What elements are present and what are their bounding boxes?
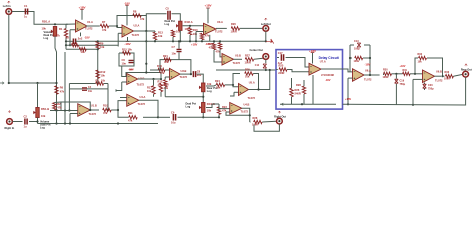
op-amp U6A <box>353 69 365 82</box>
svg-text:U5.B: U5.B <box>235 54 241 58</box>
svg-text:47k: 47k <box>128 119 133 123</box>
capacitor C3 <box>73 39 75 45</box>
loop R13 C6 network <box>119 53 134 66</box>
resistor R9 upper <box>96 41 100 49</box>
svg-text:10n: 10n <box>122 62 127 66</box>
wire R23 bottom <box>218 114 220 117</box>
resistor R27b <box>302 86 305 94</box>
wire U4B + stub <box>226 111 230 113</box>
resistor R15 top of loop <box>123 51 131 54</box>
svg-text:U5.A: U5.A <box>249 80 255 84</box>
capacitor C6 <box>129 60 134 62</box>
bus net B y45 <box>66 44 118 46</box>
svg-text:-18V: -18V <box>325 78 331 82</box>
svg-text:100R: 100R <box>383 76 389 79</box>
resistor R28 <box>254 120 263 123</box>
wire into U4B <box>219 104 230 109</box>
svg-text:+18V: +18V <box>204 4 211 8</box>
feedback U5A <box>233 74 240 85</box>
wire RC top right <box>104 83 108 85</box>
svg-text:10k: 10k <box>101 74 106 78</box>
wire R25b to U7 + <box>287 70 309 72</box>
node x98 bus <box>97 44 99 46</box>
wire U1A V- stub <box>80 33 82 37</box>
svg-text:U3.B: U3.B <box>181 69 187 73</box>
svg-text:TL072: TL072 <box>180 75 188 79</box>
wire R23v to U5B <box>220 49 222 57</box>
svg-text:R28: R28 <box>296 83 301 87</box>
svg-text:47k: 47k <box>158 83 163 87</box>
svg-text:10k: 10k <box>207 82 212 86</box>
op-amp U6B <box>423 70 435 83</box>
svg-text:10k: 10k <box>41 114 46 118</box>
svg-text:C17: C17 <box>278 51 283 55</box>
wire y49 link <box>66 48 98 50</box>
resistor R7 <box>100 24 109 27</box>
wire U2B out <box>138 78 161 80</box>
svg-text:TL072: TL072 <box>138 102 146 106</box>
svg-text:LT1010CN8: LT1010CN8 <box>321 74 335 77</box>
bus U1B - input <box>50 110 78 112</box>
left edge stub <box>0 82 4 84</box>
node y97 <box>202 96 204 98</box>
connector pin J1 <box>8 1 11 3</box>
potentiometer R19/2.A rear <box>202 83 205 92</box>
stub <box>97 40 99 42</box>
wire RC to U1B input <box>68 89 70 111</box>
power -18V U2A <box>126 41 130 43</box>
wire rear pot B bottom <box>202 113 204 118</box>
wire C9 to pot node <box>178 116 204 118</box>
wire rear pot A wiper to R24 <box>206 85 216 86</box>
svg-text:R21: R21 <box>163 54 168 58</box>
wire y117 to C9 <box>158 116 170 118</box>
svg-text:R9: R9 <box>100 42 104 46</box>
op-amp U7 LT1010 <box>309 63 321 75</box>
svg-text:R6: R6 <box>60 86 64 90</box>
potentiometer R5/1.A volume <box>53 27 56 37</box>
wire to R26b <box>291 78 293 88</box>
wire C8 to rear pot <box>197 74 204 83</box>
resistor R20 <box>231 27 240 30</box>
jog <box>383 74 385 75</box>
wire U6A + to bottom bus <box>347 78 349 104</box>
svg-text:2n2: 2n2 <box>78 37 83 41</box>
node pot top junction <box>54 23 56 25</box>
wire column x98 <box>97 49 99 84</box>
stub2 <box>53 109 55 112</box>
resistor R31 <box>403 72 411 75</box>
wire U4A out loop right <box>139 100 158 117</box>
svg-text:U6.B: U6.B <box>436 69 442 73</box>
svg-text:U3.A: U3.A <box>217 20 223 24</box>
resistor R19 <box>158 68 165 71</box>
capacitor C17 <box>281 54 283 61</box>
resistor R23 <box>217 107 220 115</box>
svg-text:10u: 10u <box>171 120 176 124</box>
resistor R15b <box>164 80 167 87</box>
resistor R27 <box>245 58 254 61</box>
wire U2A out <box>134 30 156 32</box>
resistor R13 drop <box>153 32 156 40</box>
wire +18V to U7 <box>312 53 314 64</box>
wire R27 to Center Out <box>254 58 263 59</box>
svg-text:10k: 10k <box>100 45 105 49</box>
potentiometer R5/1.B volume <box>36 108 39 118</box>
bus A end arrow <box>266 39 274 44</box>
wire box bottom bus <box>280 103 336 105</box>
wire to U1A + input <box>66 23 76 25</box>
svg-text:R20: R20 <box>231 22 236 26</box>
connector pin J2 <box>8 111 11 113</box>
feedback loop U2A <box>117 16 146 31</box>
wire rear pot B wiper <box>206 104 212 108</box>
wire column x65 long <box>64 52 66 111</box>
jack J1 Left In <box>6 9 12 15</box>
wire +18V to U1A <box>81 9 83 19</box>
resistor R23v <box>218 43 221 49</box>
svg-text:240R: 240R <box>278 71 284 75</box>
node U2A in <box>116 25 118 27</box>
svg-text:U1.B: U1.B <box>91 103 97 107</box>
svg-text:R15: R15 <box>158 79 163 83</box>
wire pot A wiper to U3A <box>183 25 204 27</box>
svg-text:10n: 10n <box>88 90 93 93</box>
wire pot A bottom to bus <box>179 30 181 41</box>
wire R30 to R31 <box>392 73 403 75</box>
svg-text:Right In: Right In <box>5 126 15 130</box>
wire R20 to Left Out <box>240 27 263 29</box>
wire R15b to y97 bus <box>164 87 166 97</box>
wire RC bottom right <box>87 88 108 90</box>
wire U2B + ref stub <box>116 82 122 91</box>
wire R14 bottom <box>172 37 174 41</box>
wire U5B out <box>234 58 243 60</box>
op-amp U4A <box>127 94 139 106</box>
svg-text:C8: C8 <box>197 69 201 73</box>
resistor R30 <box>384 72 392 75</box>
resistor R3 on bus B <box>72 44 79 47</box>
stub <box>53 102 55 104</box>
svg-text:47k: 47k <box>216 49 221 53</box>
wire RC left link <box>68 84 70 89</box>
wire out down to bus1 <box>145 31 147 41</box>
svg-text:TL072: TL072 <box>215 30 223 34</box>
node R17 top <box>152 78 154 80</box>
wire +18V to U3A <box>207 8 209 23</box>
svg-text:+18V: +18V <box>78 5 85 9</box>
wire to right volume pot <box>37 83 39 108</box>
svg-text:47k: 47k <box>140 17 145 21</box>
svg-text:10k: 10k <box>207 108 212 112</box>
wire C2 to pot node <box>29 121 38 123</box>
svg-text:R5/1.A: R5/1.A <box>42 20 50 24</box>
wire bus link x66 <box>65 45 67 49</box>
wire R16 to bus <box>201 40 203 42</box>
svg-text:-18V: -18V <box>128 68 134 72</box>
svg-text:Log: Log <box>165 22 170 26</box>
wire U3B + input <box>165 76 169 78</box>
svg-text:R12: R12 <box>101 70 106 74</box>
wire R13 top <box>154 31 156 32</box>
node U2A out <box>145 30 147 32</box>
arrow box bus <box>282 103 285 105</box>
resistor R11 <box>129 116 137 119</box>
svg-text:100R: 100R <box>444 78 450 81</box>
svg-text:100R: 100R <box>252 123 258 127</box>
svg-text:R13: R13 <box>158 30 163 34</box>
svg-text:R30: R30 <box>383 69 388 72</box>
connector pin J4 <box>278 111 281 113</box>
wire bus to R23v <box>219 41 221 43</box>
svg-text:100R: 100R <box>231 30 237 34</box>
svg-text:1u: 1u <box>24 125 27 129</box>
svg-text:10k: 10k <box>42 26 47 30</box>
wire y117 to R23col <box>203 116 218 118</box>
bottom bus left <box>38 123 159 125</box>
svg-text:Log: Log <box>207 89 212 93</box>
svg-text:TL072: TL072 <box>364 77 372 81</box>
wire J1 to volume pot bus <box>12 12 68 25</box>
node box bus <box>301 103 303 105</box>
capacitor C12 <box>263 64 267 68</box>
svg-text:1u: 1u <box>24 15 27 19</box>
svg-text:Left In: Left In <box>3 4 11 8</box>
svg-text:47k: 47k <box>60 89 65 93</box>
svg-text:R11: R11 <box>128 111 133 115</box>
node R10 top <box>189 25 191 27</box>
svg-text:C3: C3 <box>66 35 70 39</box>
svg-text:R31: R31 <box>403 69 408 72</box>
wire U6A out <box>364 74 380 76</box>
svg-text:47k: 47k <box>160 71 165 75</box>
node y117 pot <box>202 116 204 118</box>
wire box edge to C17 <box>277 57 279 59</box>
resistor R6 <box>55 86 58 94</box>
svg-text:C7: C7 <box>172 45 176 49</box>
node RC right top <box>97 82 99 84</box>
svg-text:TL072: TL072 <box>85 27 93 31</box>
resistor R29 feedback <box>355 56 363 59</box>
wire C19 to bottom bus <box>395 84 397 105</box>
wire U2B - input <box>122 66 127 77</box>
svg-text:C2: C2 <box>24 114 28 118</box>
potentiometer R19/2.B rear <box>202 103 205 113</box>
resistor R26b <box>290 88 293 97</box>
svg-text:TL072: TL072 <box>435 79 443 83</box>
resistor R21 feedback <box>164 58 171 61</box>
wire box out to U6A <box>343 69 353 72</box>
wire U4B out down <box>242 108 250 122</box>
wire R11 left up <box>118 110 129 117</box>
jack J5 Center Out <box>263 54 269 60</box>
svg-text:-18V: -18V <box>124 2 130 6</box>
stub C20 top <box>424 83 426 85</box>
power +18V U1A <box>80 8 84 10</box>
svg-text:TL072: TL072 <box>241 110 249 114</box>
wire Center Out down <box>265 59 267 63</box>
wire R33 to Rear Out <box>453 74 462 76</box>
capacitor C2 <box>25 119 27 125</box>
svg-text:U6.A: U6.A <box>365 68 371 72</box>
power -18V U2A top <box>125 4 129 6</box>
capacitor C13 <box>357 43 361 47</box>
wire U2A + input stub <box>118 32 122 34</box>
wire wiper link <box>212 103 219 105</box>
capacitor C8 <box>193 71 195 77</box>
wire U7 down to box bottom bus <box>312 75 314 104</box>
svg-text:U4.A: U4.A <box>140 95 146 99</box>
wire U4A - in stub <box>120 97 127 99</box>
wire to C19 <box>395 74 397 79</box>
wire to U1A - input <box>70 29 76 31</box>
wire R24 to U5A <box>225 85 239 87</box>
wire RC bottom left <box>69 88 82 90</box>
connector pin J6 <box>465 64 468 66</box>
capacitor C20 <box>423 84 427 88</box>
svg-text:R28: R28 <box>253 116 258 120</box>
svg-text:TL072: TL072 <box>248 96 256 100</box>
svg-text:C9: C9 <box>171 111 175 115</box>
wire U5A + input stub <box>234 91 239 93</box>
op-amp U5A <box>239 84 249 96</box>
wire to R17 <box>153 79 155 86</box>
svg-text:10n: 10n <box>172 51 177 55</box>
resistor R18 <box>159 83 162 92</box>
wire feedback to out <box>253 74 258 90</box>
resistor R10 <box>188 27 191 35</box>
svg-text:100k: 100k <box>354 60 360 63</box>
svg-text:10k: 10k <box>216 86 221 90</box>
svg-text:10k: 10k <box>193 32 198 36</box>
wire U1B out <box>90 109 99 111</box>
svg-text:TL072: TL072 <box>137 82 145 86</box>
svg-text:R15 10k: R15 10k <box>122 47 132 51</box>
svg-text:U2.A: U2.A <box>134 23 140 27</box>
bus y70 <box>216 69 276 71</box>
wire + input down <box>164 77 166 80</box>
feedback U1B <box>61 102 90 111</box>
svg-text:U7.A: U7.A <box>320 59 326 63</box>
svg-text:-18V: -18V <box>365 62 371 66</box>
feedback U6B <box>415 58 418 74</box>
svg-text:-18V: -18V <box>84 36 90 40</box>
svg-text:R33: R33 <box>445 71 450 74</box>
svg-text:47k: 47k <box>102 28 107 32</box>
stub <box>215 84 217 86</box>
wire R19 to U3B <box>165 69 170 71</box>
svg-text:U1.A: U1.A <box>87 20 93 24</box>
bus net A y41 left seg <box>66 40 73 42</box>
wire R23 top <box>218 104 220 107</box>
wire RC to output node <box>107 89 109 110</box>
svg-text:750p: 750p <box>400 83 406 86</box>
svg-text:R17: R17 <box>147 85 152 89</box>
svg-text:Log: Log <box>40 125 45 129</box>
svg-text:R4/2.A: R4/2.A <box>185 20 193 24</box>
wire R13 bottom <box>154 40 156 41</box>
svg-text:+18V: +18V <box>345 97 351 101</box>
svg-text:10k: 10k <box>245 74 250 78</box>
wire U2B + input <box>122 81 127 83</box>
wire Left Out to bus A <box>265 31 267 41</box>
wire R10b to U4A <box>111 101 127 110</box>
svg-text:47k: 47k <box>164 60 169 64</box>
wire RC top <box>69 83 95 85</box>
resistor R25b <box>279 68 287 71</box>
svg-text:R25: R25 <box>279 64 284 68</box>
node R18 top <box>160 78 162 80</box>
resistor R8 feedback U1B <box>96 82 104 85</box>
wire U3A V- stub <box>209 35 211 42</box>
feedback U3B <box>150 60 191 75</box>
wire R31 to U6B <box>410 73 423 75</box>
wire bus to R22v <box>213 41 215 43</box>
resistor R8b lower <box>96 70 100 79</box>
bus y97 <box>165 96 203 98</box>
node filter <box>395 73 397 75</box>
svg-text:R8: R8 <box>133 9 137 13</box>
wire R27b down <box>303 94 305 104</box>
stub C20 bottom <box>424 88 426 90</box>
capacitor C5 <box>168 11 170 20</box>
capacitor C4 <box>82 88 87 90</box>
svg-text:750p: 750p <box>428 87 434 90</box>
svg-text:C6: C6 <box>122 58 126 62</box>
resistor R22v <box>212 43 215 50</box>
wire + input to bus <box>195 32 197 42</box>
wire bus A to C7 <box>178 41 180 49</box>
feedback U4B <box>226 112 250 115</box>
svg-text:U2.B: U2.B <box>139 76 145 80</box>
resistor R25 feedback <box>245 72 254 75</box>
ground loop J4 <box>254 124 279 131</box>
resistor R1 <box>64 29 67 38</box>
svg-text:R27: R27 <box>245 53 250 57</box>
svg-text:U4.B: U4.B <box>244 102 250 106</box>
wire U6B out <box>435 75 442 77</box>
svg-text:-18V: -18V <box>124 42 130 46</box>
wire U3A out <box>216 27 227 29</box>
potentiometer R4/2.A <box>179 21 182 30</box>
capacitor C9 <box>173 114 175 121</box>
svg-text:C12: C12 <box>255 65 260 67</box>
svg-text:47k: 47k <box>103 111 108 115</box>
node out-bus <box>269 69 271 71</box>
wire pot bottom to lower bus <box>55 36 57 110</box>
wire R18 down <box>160 92 162 97</box>
wire to C5 <box>146 14 166 16</box>
wire x56 lower <box>56 111 58 124</box>
wire -18V to U2A top <box>126 5 128 25</box>
feedback U6A loops <box>349 45 351 72</box>
wire R1 to bus2 <box>65 38 67 46</box>
jack J2 Right In <box>7 119 13 125</box>
stub <box>249 121 252 123</box>
svg-text:10k: 10k <box>158 34 163 38</box>
wire R17 down <box>153 94 155 97</box>
svg-text:R25: R25 <box>245 68 250 72</box>
op-amp U2A <box>122 25 134 37</box>
svg-text:100p: 100p <box>354 47 360 50</box>
svg-text:47k: 47k <box>56 34 61 38</box>
wire C17 to U7 input <box>286 58 309 68</box>
wire U3B out <box>180 73 192 75</box>
wire + ref <box>230 92 234 96</box>
svg-text:R24: R24 <box>215 79 220 83</box>
wire R22v to U5B + <box>214 50 222 62</box>
wire C7 to rear bus <box>178 52 180 59</box>
